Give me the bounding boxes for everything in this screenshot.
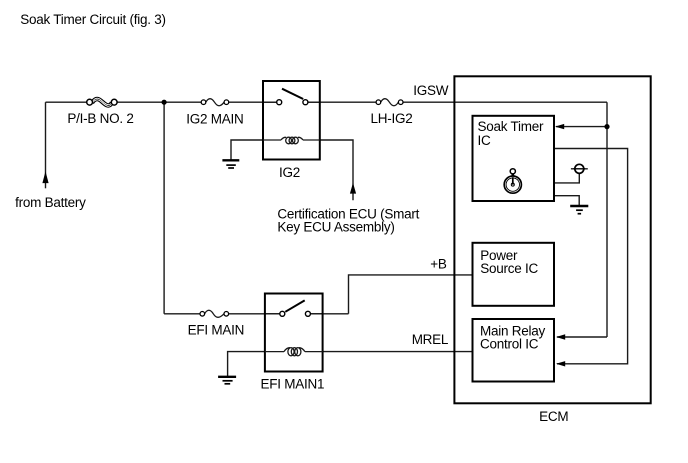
svg-text:MREL: MREL: [412, 332, 449, 347]
svg-text:IG2: IG2: [279, 165, 300, 180]
svg-text:P/I-B NO. 2: P/I-B NO. 2: [67, 111, 133, 126]
svg-text:LH-IG2: LH-IG2: [371, 111, 413, 126]
svg-text:Control IC: Control IC: [480, 336, 539, 351]
svg-text:Soak Timer: Soak Timer: [478, 119, 545, 134]
svg-text:EFI MAIN: EFI MAIN: [188, 322, 245, 337]
svg-text:EFI MAIN1: EFI MAIN1: [261, 377, 325, 392]
svg-text:IC: IC: [478, 133, 492, 148]
svg-text:from Battery: from Battery: [15, 195, 86, 210]
svg-text:ECM: ECM: [539, 409, 568, 424]
svg-text:Soak Timer Circuit (fig. 3): Soak Timer Circuit (fig. 3): [20, 12, 166, 27]
svg-text:Key ECU Assembly): Key ECU Assembly): [277, 220, 394, 235]
svg-text:+B: +B: [430, 256, 447, 271]
svg-text:IG2 MAIN: IG2 MAIN: [186, 112, 243, 127]
svg-text:Source IC: Source IC: [480, 261, 538, 276]
svg-text:IGSW: IGSW: [413, 83, 449, 98]
